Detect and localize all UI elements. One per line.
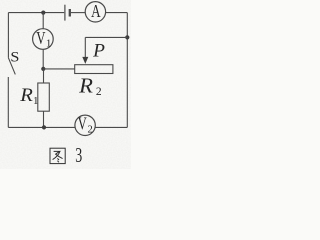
ammeter A [85, 2, 105, 22]
battery B1 long plate [64, 5, 66, 21]
battery B1 short plate [69, 9, 71, 17]
wire: ammeter to top-right corner [106, 12, 128, 14]
voltmeter V1 [33, 29, 54, 50]
svg-text:R: R [19, 85, 33, 106]
wire: battery to ammeter [71, 12, 85, 14]
svg-text:P: P [92, 41, 105, 62]
node: right-edge junction for wiper [125, 35, 129, 39]
wire: R1 down to bottom node [43, 111, 45, 127]
svg-text:3: 3 [75, 143, 82, 167]
wire: wiper vertical [84, 37, 86, 58]
svg-text:1: 1 [33, 95, 39, 107]
caption: character 图 (drawn) [50, 148, 65, 163]
svg-text:2: 2 [96, 86, 102, 98]
svg-text:S: S [10, 50, 19, 66]
wire: right side vertical [126, 13, 128, 128]
wire: right node to wiper (horizontal) [85, 36, 127, 38]
wire: top node down to V1 [42, 13, 44, 29]
node: bottom junction [42, 125, 46, 129]
switch S blade [8, 58, 15, 75]
svg-text:2: 2 [88, 125, 93, 136]
voltmeter V2 [75, 115, 95, 135]
svg-text:V: V [36, 28, 45, 48]
node: mid junction below V1 [41, 67, 45, 71]
svg-text:A: A [91, 1, 101, 21]
svg-text:1: 1 [46, 37, 52, 49]
wire: mid node down to R1 [43, 69, 45, 83]
wire: bottom from left corner to V2 [8, 126, 75, 128]
wire: top, left corner to battery [8, 12, 64, 14]
wire: V1 down to mid node [42, 49, 44, 69]
rheostat R2 body [75, 65, 113, 74]
wire: left side upper (to switch) [7, 13, 9, 58]
node: top junction to V1 [41, 11, 45, 15]
svg-text:R: R [78, 73, 93, 97]
wire: mid node to rheostat left terminal [43, 68, 74, 70]
svg-text:V: V [78, 113, 87, 133]
resistor R1 body [38, 83, 50, 111]
wiper arrowhead P [82, 57, 88, 64]
wire: left side lower [7, 77, 9, 127]
wire: V2 to bottom-right corner [95, 126, 127, 128]
